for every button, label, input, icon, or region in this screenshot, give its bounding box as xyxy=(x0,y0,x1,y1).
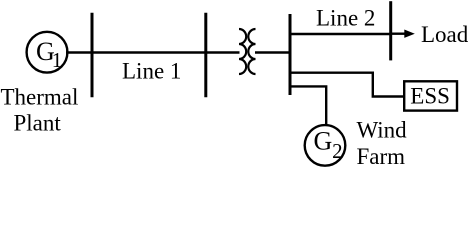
svg-text:G: G xyxy=(314,127,333,156)
svg-text:ESS: ESS xyxy=(410,83,450,108)
svg-text:Load: Load xyxy=(421,22,468,47)
svg-text:Plant: Plant xyxy=(14,110,62,135)
svg-text:Wind: Wind xyxy=(357,118,408,143)
svg-text:2: 2 xyxy=(332,139,343,163)
svg-text:Line 2: Line 2 xyxy=(316,5,375,30)
svg-text:Line 1: Line 1 xyxy=(122,59,181,84)
svg-text:Farm: Farm xyxy=(357,144,406,168)
svg-text:Thermal: Thermal xyxy=(1,85,79,110)
svg-text:1: 1 xyxy=(52,48,63,72)
